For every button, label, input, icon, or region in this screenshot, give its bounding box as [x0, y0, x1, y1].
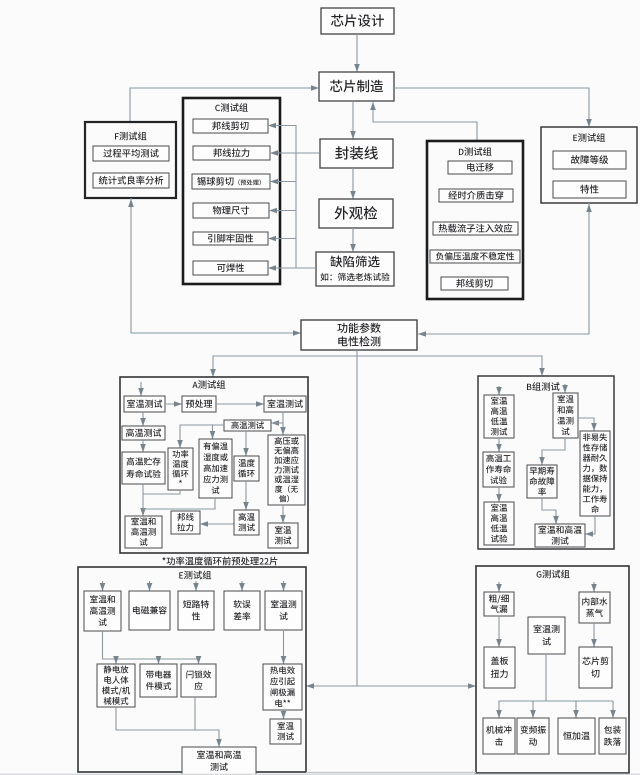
box 锡球剪切（预处理） — [192, 174, 270, 189]
box 高温贮存寿命试验 — [122, 452, 165, 484]
box 经时介质击穿 — [439, 189, 513, 202]
wire 入→室温和高温B1 — [562, 384, 568, 393]
box 功能参数电性检测 — [301, 320, 417, 350]
box 室温测试G — [528, 617, 565, 654]
wire 非易失→室温和高温B2 — [585, 516, 595, 537]
box 包装跌落 — [599, 718, 626, 754]
wire E测试组2↔G测试组 — [306, 683, 476, 689]
wire 温度循环→高温测试A3 — [243, 481, 249, 510]
wire →锡球剪切 — [270, 179, 296, 185]
wire 高压→室温测试A3 — [280, 505, 286, 523]
box 外观检 — [319, 199, 393, 228]
wire 静电放电→室温和高温E2 — [116, 707, 222, 747]
label A测试组 — [192, 380, 225, 389]
group frame D测试组 — [427, 141, 523, 299]
box 带电器件模式 — [140, 664, 177, 697]
group frame C测试组 — [183, 98, 280, 284]
box 高温测试A3 — [234, 510, 259, 535]
box 室温测试A3 — [268, 523, 298, 548]
wire 分支→高温测试A2 — [271, 422, 283, 424]
box 高温工作寿命试验 — [483, 452, 514, 487]
label D测试组 — [459, 147, 492, 156]
label 功率温度循环前预处理 — [162, 557, 277, 566]
wire 芯片设计→芯片制造 — [354, 34, 360, 72]
box 高压或无偏高加速应力测试或温湿度 — [268, 435, 305, 505]
box 室温和高温测试E2 — [182, 747, 256, 775]
wire 室温测试A2→高温测试A2/高压 — [271, 412, 286, 435]
wire →变频振动 — [530, 701, 536, 718]
wire 室温测试A1→预处理 — [165, 401, 182, 407]
box 邦线拉力 — [193, 146, 270, 160]
wire 闩锁效应→汇合 — [194, 697, 196, 730]
box 负偏压温度不稳定性 — [430, 250, 520, 263]
wire →有偏温湿度 — [210, 425, 216, 439]
box 封装线 — [320, 139, 393, 168]
wire F测试组→芯片制造 — [130, 85, 319, 122]
box 室温测试A1 — [124, 396, 165, 412]
wire 室温测试G→底排分配 — [496, 654, 546, 718]
box 粗细气漏 — [484, 592, 514, 616]
wire 封装线→邦线拉力 — [270, 150, 319, 156]
wire 外观检→缺陷筛选 — [350, 228, 356, 252]
wire 入→E2顶排 x=149.5 — [147, 581, 153, 591]
box 室温和高温测试B2 — [535, 524, 585, 547]
box 故障等级 — [553, 151, 626, 169]
box 电磁兼容 — [129, 591, 170, 630]
wire 缺陷筛选→可焊性 — [268, 265, 316, 271]
wire →B组测试 — [357, 356, 545, 376]
box 室温高温低温试验B — [484, 502, 514, 545]
box 早期寿命故障率 — [527, 465, 557, 498]
label B组测试 — [527, 382, 560, 391]
wire 室温高温低温→高温工作寿命 — [496, 438, 502, 452]
box 引脚牢固性 — [193, 232, 268, 245]
wire E1分配 — [103, 631, 199, 659]
label F测试组 — [115, 132, 146, 141]
wire 功能参数电性检测↔F测试组 — [128, 198, 301, 336]
box 特性 — [553, 181, 626, 198]
box 可焊性 — [193, 261, 268, 275]
box 邦线剪切D — [441, 277, 508, 290]
wire →闩锁效应 — [196, 656, 202, 664]
box 恒加温 — [558, 718, 595, 754]
wire 入→E2顶排 x=242 — [239, 581, 245, 591]
box 过程平均测试 — [93, 146, 169, 161]
box 变频振动 — [517, 718, 549, 754]
wire C组分配竖线 — [295, 125, 297, 268]
wire B1→非易失 — [578, 418, 597, 431]
box 热电效应引起闸极漏电 — [263, 664, 302, 710]
wire 入→E2顶排 x=283.5 — [281, 581, 287, 591]
box 高温测试A2 — [224, 420, 271, 431]
label E测试组 — [573, 133, 605, 142]
group frame F测试组 — [85, 122, 176, 198]
box 缺陷筛选 — [316, 252, 394, 286]
box 邦线拉力A — [171, 511, 200, 534]
wire 入→E2顶排 x=102.5 — [100, 581, 106, 591]
wire →物理尺寸 — [269, 208, 296, 214]
box 芯片剪切 — [579, 647, 612, 688]
wire 芯片制造→封装线 — [350, 101, 356, 139]
wire 室温测试E1→热电效应 — [281, 631, 287, 664]
wire 芯片制造→E测试组 — [394, 88, 592, 127]
wire 室温测试A1→高温测试A1 — [140, 412, 146, 426]
wire 入→室温测试A1 — [138, 382, 144, 396]
box 室温和高温测试E1 — [84, 591, 121, 631]
wire 封装线→外观检 — [350, 168, 356, 199]
box 闩锁效应 — [181, 664, 216, 697]
wire →邦线剪切 — [268, 123, 296, 129]
box 内部水蒸气 — [579, 592, 610, 623]
wire 高温测试A1→高温贮存 — [140, 440, 146, 452]
group frame B组测试 — [478, 376, 614, 549]
wire 有偏↘ — [143, 498, 215, 509]
box 温度循环 — [234, 456, 259, 481]
box 统计式良率分析 — [93, 173, 169, 188]
wire →带电器件 — [156, 656, 162, 664]
bottom edge smear — [306, 772, 476, 774]
box 邦线剪切 — [193, 119, 268, 133]
box 室温高温低温测试B — [484, 395, 514, 438]
wire →A测试组 — [210, 356, 357, 377]
wire 入→内部水蒸气 — [591, 582, 597, 592]
box 物理尺寸 — [193, 203, 269, 218]
wire →静电放电 — [113, 656, 119, 664]
label G测试组 — [537, 570, 570, 579]
wire 中央干线 — [356, 350, 358, 686]
box 机械冲击 — [483, 718, 515, 754]
box 室温和高温测试A — [125, 516, 162, 548]
wire 早期→室温和高温B2 — [542, 498, 559, 524]
box 预处理 — [182, 396, 216, 412]
box 非易失性存储器耐久力 — [580, 431, 610, 516]
box 高温测试A1 — [122, 426, 165, 440]
box 热载流子注入效应 — [433, 222, 518, 235]
wire 高温测试A2←分配 — [177, 425, 224, 448]
group frame E测试组 — [541, 127, 637, 203]
wire 入→E2顶排 x=196 — [193, 581, 199, 591]
box 室温测试E2 — [270, 719, 301, 744]
wire →恒加温 — [573, 701, 579, 718]
wire 分配横线 — [499, 700, 613, 702]
wire 内部水蒸气→芯片剪切 — [591, 623, 597, 647]
box 室温测试A2 — [264, 396, 306, 412]
label C测试组 — [215, 103, 248, 112]
wire 功率温度循环↘ — [143, 490, 180, 494]
box 室温和高温测试B1 — [553, 393, 578, 438]
wire 高温工作→室温高温低温试验 — [496, 487, 502, 502]
label E测试组2 — [179, 571, 211, 580]
wire 高温测试A3→邦线拉力 — [200, 521, 234, 527]
wire 入→室温高温低温B1 — [496, 386, 502, 395]
box 短路特性 — [178, 591, 214, 630]
group frame G测试组 — [476, 566, 629, 773]
wire 功能参数电性检测↔E测试组 — [418, 203, 592, 337]
wire 入→粗细气漏 — [496, 582, 502, 592]
box 盖板扭力 — [484, 647, 515, 688]
wire B1→早期寿命故障率 — [539, 438, 565, 465]
group frame A测试组 — [120, 377, 308, 553]
box 有偏温湿度或高加速应力测试 — [199, 439, 232, 498]
wire →包装跌落 — [610, 701, 616, 718]
wire 粗细气漏→盖板扭力 — [496, 616, 502, 647]
wire 高温贮存→室温和高温A — [140, 484, 146, 516]
box 芯片设计 — [321, 8, 394, 34]
wire D测试组→芯片制造 — [370, 101, 477, 141]
wire 高温测试A2→温度循环 — [243, 431, 249, 456]
box 室温测试E1 — [265, 591, 302, 630]
wire →引脚牢固性 — [268, 236, 296, 242]
box 芯片制造 — [319, 72, 394, 101]
box 功率温度循环 — [168, 448, 193, 490]
box 软误差率 — [224, 591, 260, 630]
box 电迁移 — [448, 161, 512, 174]
box 静电放电人体模式机械模式 — [97, 664, 135, 707]
group frame E测试组2 — [78, 567, 306, 772]
wire 预处理→室温测试A2 — [216, 401, 264, 407]
wire 热电效应→室温测试E2 — [281, 710, 287, 719]
